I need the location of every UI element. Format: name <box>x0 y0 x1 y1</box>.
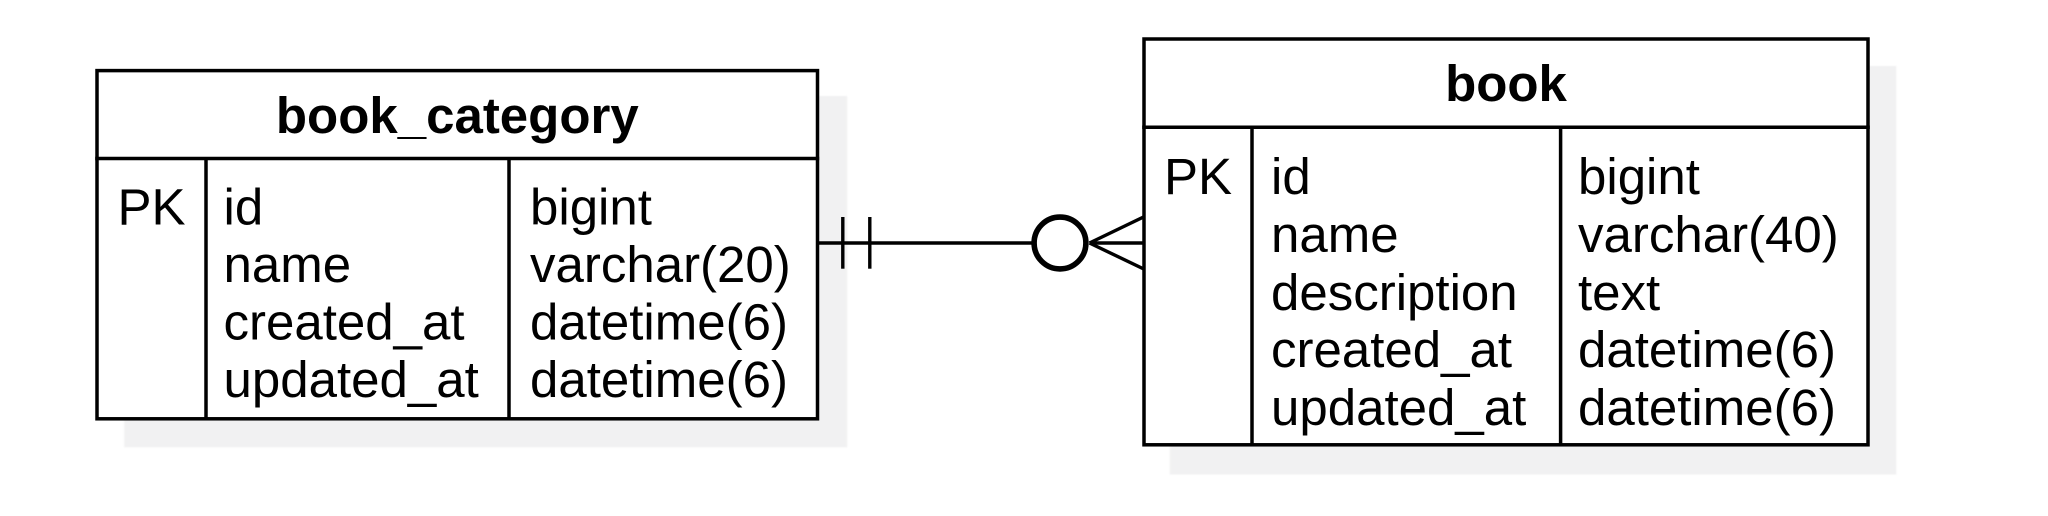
svg-text:datetime(6): datetime(6) <box>530 294 788 351</box>
svg-text:bigint: bigint <box>1578 148 1700 205</box>
svg-text:id: id <box>224 178 264 235</box>
svg-text:book_category: book_category <box>276 87 639 144</box>
svg-text:datetime(6): datetime(6) <box>1578 321 1836 378</box>
svg-text:text: text <box>1578 264 1660 321</box>
svg-text:varchar(40): varchar(40) <box>1578 206 1839 263</box>
svg-text:description: description <box>1271 264 1518 321</box>
svg-text:created_at: created_at <box>224 294 465 351</box>
entity book type column separator <box>1559 127 1563 445</box>
svg-text:created_at: created_at <box>1271 321 1512 378</box>
crow's foot middle line <box>1090 241 1145 244</box>
svg-text:name: name <box>1271 206 1399 263</box>
crow's foot lower line <box>1090 243 1145 269</box>
crow's foot upper line <box>1090 217 1145 243</box>
svg-text:id: id <box>1271 148 1311 205</box>
svg-text:PK: PK <box>117 178 185 235</box>
cardinality zero circle <box>1034 217 1086 269</box>
svg-text:PK: PK <box>1164 148 1232 205</box>
entity book shadow <box>1170 66 1897 475</box>
entity book PK column separator <box>1250 127 1254 445</box>
svg-text:varchar(20): varchar(20) <box>530 236 791 293</box>
svg-text:updated_at: updated_at <box>1271 379 1526 436</box>
svg-text:datetime(6): datetime(6) <box>1578 379 1836 436</box>
cardinality one tick 1 <box>841 217 844 269</box>
entity book_category box <box>97 71 818 419</box>
entity book_category type column separator <box>507 159 511 419</box>
svg-text:bigint: bigint <box>530 178 652 235</box>
entity book_category header separator <box>95 157 819 161</box>
entity book box <box>1144 39 1868 445</box>
entity book_category shadow <box>124 96 847 447</box>
cardinality one tick 2 <box>868 217 871 269</box>
svg-text:datetime(6): datetime(6) <box>530 351 788 408</box>
entity book_category PK column separator <box>204 159 208 419</box>
entity book header separator <box>1142 126 1870 130</box>
relationship wire left segment <box>819 241 1032 244</box>
svg-text:updated_at: updated_at <box>224 351 479 408</box>
svg-text:book: book <box>1445 55 1567 112</box>
svg-text:name: name <box>224 236 352 293</box>
